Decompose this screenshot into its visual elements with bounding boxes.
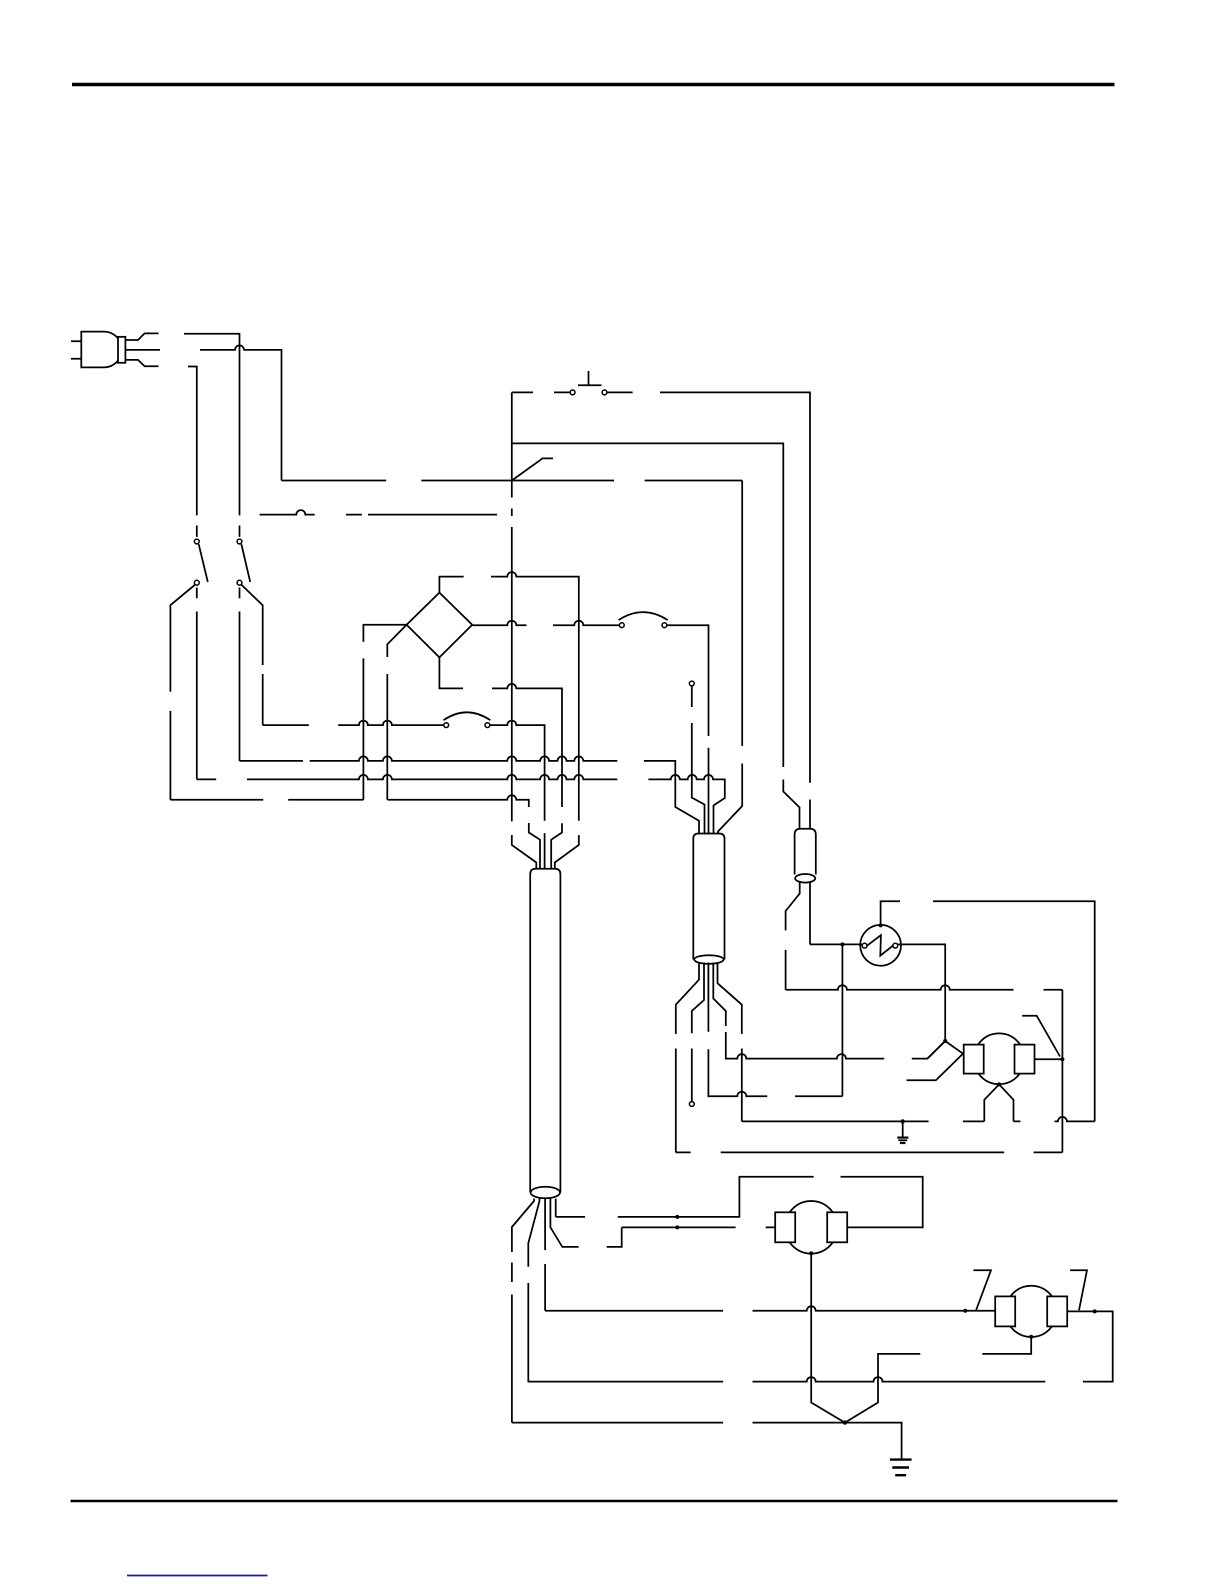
wire w3': C2 pin straight down, corner to row y=1096.2 — [708, 963, 842, 1097]
node: dot at thermal protector top — [879, 923, 883, 927]
wire w2: cable C1 pin to vertical x=528.3 down to row y=1381.6 — [528, 1198, 539, 1381]
wire: S1 lower contact diagonal to outer vertical x=170.4 — [170, 585, 195, 800]
wire: M1 Y-legs to bus y=1121.4 — [984, 1084, 1013, 1121]
wire: ground bus y=1121.4 — [742, 1117, 1095, 1122]
wire: dashed line y=514.6 with hump — [260, 510, 497, 515]
wire: bus y=779.4 from S1 vertical to corner x=724.8 into connector C2 — [197, 775, 725, 835]
wire: M1 right terminal to vertical x=1062.4 — [1035, 1058, 1063, 1060]
wire: from open pin down x=691.8 into connector C2 — [692, 686, 705, 834]
wire: S2 lower contact diagonal to outer vertical x=262.7 — [241, 585, 262, 725]
node: junction dot x=842.4 y=944.4 — [840, 942, 844, 946]
wire: bottom bus y=1152.4 from x=676.1 to corner x=1062.4 — [676, 1151, 1063, 1153]
wire: fuse right lead down x=810 to line y=944.4 — [809, 883, 811, 945]
circuit breaker CB1 — [443, 712, 490, 727]
node: dot at M1 bottom — [997, 1082, 1001, 1086]
wire: S1 lower contact straight down to bus y=779.4 — [196, 588, 198, 780]
wire: row A y=1216.9 up over to motor M2 right terminal — [556, 1177, 923, 1228]
wire: vertical x=1062.4 from y=989.7 down to bottom bus y=1152.4 — [1061, 990, 1063, 1153]
wire: M3 bottom to line y=1353.9 to corner x=878 down to V-junction — [845, 1337, 1031, 1423]
wire: S2 lower contact straight down to bus y=760.9 — [239, 588, 241, 761]
wire: line y=989.7 from fuse-left corner to corner x=1062.4 — [786, 985, 1063, 990]
wire: CB1 to corner x=544.6 down into cable C1 — [490, 721, 545, 870]
wire: vertical x=842.4 from row y=1096.2 up to node at y=944.4 — [841, 944, 843, 1096]
switch S2 contacts and blade — [237, 539, 250, 585]
wire: plug lead to switch S1 top — [188, 367, 197, 537]
wire w4: cable C1 pin to corner x=555.7 row A — [555, 1199, 557, 1217]
open terminal pin above connector C2 — [689, 681, 694, 686]
motor M1 (brush motor) — [964, 1033, 1035, 1084]
connector C2 (capsule) — [693, 834, 724, 964]
wire: knife line vertical x=742.2 down into connector C2 — [718, 481, 742, 835]
wire: line y=944.4 from fuse to thermal protector — [810, 943, 862, 945]
wire w5': C2 pin to vertical x=741.8 down to bus y=1121.4 — [718, 963, 742, 1122]
wire: row B y=1227.4 to motor M2 left terminal — [622, 1226, 776, 1228]
wire: row1 y=1310.8 from w3 corner to motor M3 left terminal — [545, 1306, 995, 1311]
circuit breaker CB2 — [619, 612, 668, 628]
node: dot at M3 right terminal wire — [1093, 1309, 1097, 1313]
wire w2': C2 pin to open terminal pin x=691.8 — [692, 963, 704, 1102]
flag marker at M3 right — [1070, 1270, 1087, 1310]
thermal protector (circle with zigzag) — [860, 925, 901, 966]
fuse capsule F1 — [795, 829, 816, 883]
wire: bus y=799.8 from x=170.4 to corner x=528.8 into cable C1 — [170, 795, 540, 869]
node: dot on row1 at x=965.3 — [963, 1309, 967, 1313]
wire: row3 y=1422.6 from w1 corner to ground G2 — [512, 1423, 902, 1460]
wire: pushbutton line y=392.4 to corner x=810 — [512, 392, 810, 829]
wire: plug hot lead to switch S2 top — [184, 334, 240, 537]
wire: plug middle lead to corner x=281.5 (hops S2 wire) — [200, 345, 282, 480]
node: dot at ground tap — [901, 1119, 905, 1123]
wire w4': C2 pin to vertical x=725.8, corner to row y=1058.6, diagonal to node P — [713, 963, 945, 1059]
open terminal pin below connector C2 — [689, 1102, 694, 1107]
wire: knife-switch feed line y=480.5 — [282, 480, 743, 482]
wire: thermal right terminal to corner x=945.2 — [898, 944, 945, 1041]
wire w3: cable C1 pin straight down to row y=1310.8 — [544, 1198, 546, 1311]
AC power plug — [71, 332, 160, 368]
wire: diamond right lead y=625.2 to breaker CB2 — [472, 621, 619, 626]
node: dot on row A — [675, 1215, 679, 1219]
wire w5: cable C1 pin zigzag to row B — [550, 1198, 621, 1247]
node: dot at M2 bottom — [809, 1251, 813, 1255]
wire: diamond bottom lead y=688.4 to corner x=562, down into cable C1 — [439, 657, 562, 869]
node: dot at M3 bottom — [1029, 1335, 1033, 1339]
node: dot at M1 right terminal — [1060, 1057, 1064, 1061]
wire: line y=443.4 to corner x=783.3 — [512, 443, 800, 829]
wire: M3 right terminal to corner x=1112.7 down to row2 — [1067, 1311, 1113, 1381]
wire: AC lead extension from diamond left corner down x=387.3 — [387, 625, 406, 800]
ground G1 — [897, 1121, 908, 1143]
wire: diamond top lead y=576.6 to corner x=578.8, down into cable C1 — [439, 572, 578, 869]
motor M2 (vacuum motor) — [775, 1201, 847, 1254]
cable harness C1 (capsule) — [530, 869, 560, 1198]
wire: thermal top to line y=901.2 right, corner x=1094.7 down to bus — [881, 901, 1095, 1121]
pushbutton switch — [570, 371, 607, 395]
wire: main vertical x=511.8 down into cable C1 — [512, 392, 537, 869]
switch S1 contacts and blade — [194, 539, 207, 585]
knife switch blade — [512, 458, 553, 480]
pressure switch blade above M1 right — [1022, 1016, 1060, 1057]
bridge rectifier (diamond) — [407, 593, 473, 658]
wire: fuse left lead down to corner y=989.7 line — [786, 882, 800, 989]
wire w1: cable C1 pin to vertical x=511.9 down to row y=1422.6 — [512, 1199, 534, 1423]
wire: node P diagonals to motor M1 left — [928, 1041, 964, 1058]
flag marker at M3 left — [973, 1270, 991, 1310]
wire: CB2 to corner x=708.5 down into connector C2 — [667, 625, 709, 834]
wire: diamond left corner to vertical A x=363.4 — [363, 625, 406, 800]
wire: bus y=760.9 from S2 vertical to corner x=675.3 into connector C2 — [240, 756, 700, 834]
node: dot on row B — [675, 1225, 679, 1229]
node: dot at V-junction apex — [843, 1420, 847, 1424]
wire: breaker CB1 line y=725.1 from x=262.7 — [263, 721, 444, 726]
node P: junction dot — [943, 1039, 947, 1043]
ground G2 — [890, 1460, 912, 1476]
wire: aux line y=1080.2 diagonal to M1 left box — [907, 1053, 964, 1080]
wire: row2 y=1381.6 from w2 corner toward M3 — [528, 1377, 1046, 1382]
wire w1': C2 pin to vertical x=675.5 down to bottom bus corner — [676, 963, 699, 1153]
wire: M2 bottom down to V-junction — [811, 1253, 845, 1422]
motor M3 (side brush motor) — [995, 1286, 1067, 1337]
